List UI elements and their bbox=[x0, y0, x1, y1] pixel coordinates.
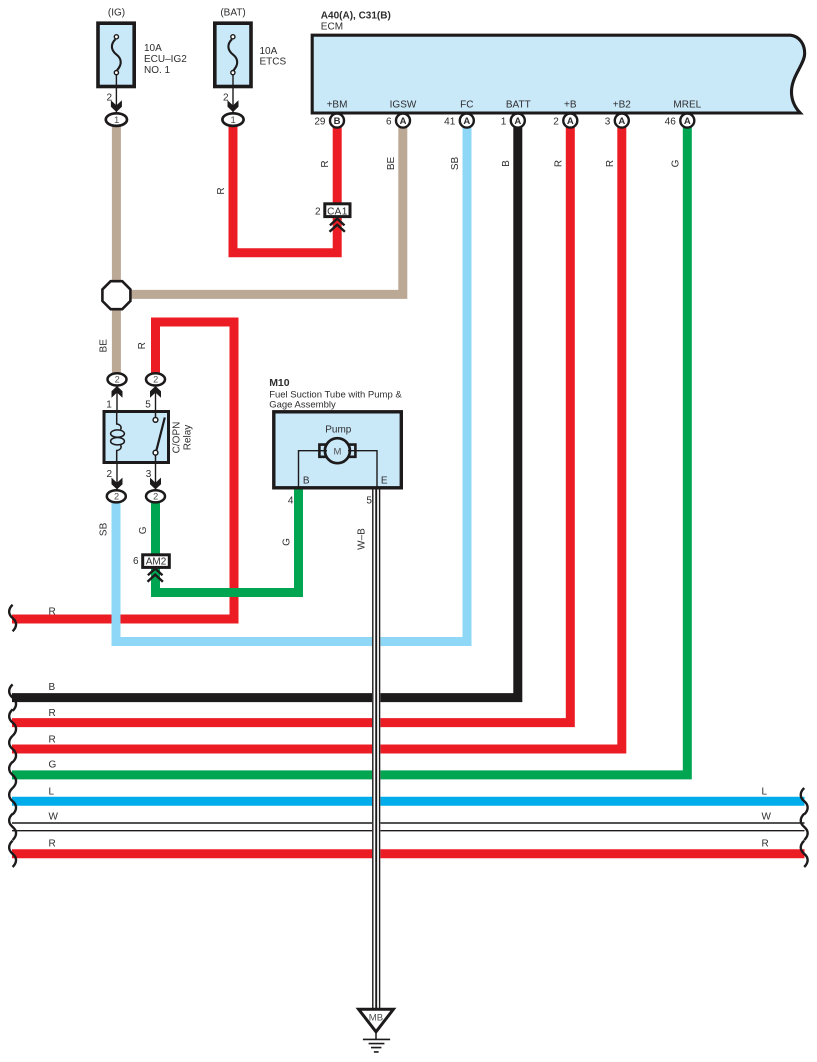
svg-text:M: M bbox=[333, 446, 341, 457]
wire BE octagon to ECM IGSW pin bbox=[116, 127, 402, 295]
relay switch bbox=[155, 412, 157, 463]
ECM pin 6(A) IGSW circle bbox=[396, 114, 410, 128]
svg-text:B: B bbox=[49, 682, 56, 693]
svg-text:A: A bbox=[463, 116, 470, 127]
svg-text:W: W bbox=[49, 811, 59, 822]
pump assembly M10 box bbox=[274, 412, 402, 488]
svg-text:G: G bbox=[670, 159, 681, 167]
wire R ECM +B pin to left edge bbox=[12, 127, 570, 723]
svg-text:2: 2 bbox=[115, 375, 120, 385]
svg-text:A40(A), C31(B): A40(A), C31(B) bbox=[321, 10, 391, 21]
svg-text:2: 2 bbox=[153, 375, 158, 385]
ground MB triangle bbox=[359, 1009, 394, 1032]
svg-text:2: 2 bbox=[106, 469, 112, 480]
relay pin 5 line bbox=[155, 387, 157, 414]
wire G relay pin 3 to AM2 bbox=[151, 496, 160, 554]
svg-text:L: L bbox=[762, 786, 768, 797]
relay coil bbox=[117, 412, 121, 463]
svg-text:CA1: CA1 bbox=[327, 206, 348, 217]
ECM pin 2(A) +B circle bbox=[563, 114, 577, 128]
break squiggle W wire right bbox=[801, 814, 808, 840]
relay pin 5 connector oval 2 bbox=[146, 373, 165, 385]
wire R ECM +BM pin down to CA1 bbox=[333, 127, 342, 204]
pump motor right brush bbox=[349, 445, 356, 457]
svg-text:L: L bbox=[49, 786, 55, 797]
svg-text:4: 4 bbox=[288, 495, 294, 506]
fuse IG connector oval 1 bbox=[106, 113, 127, 126]
relay pin 3 arrow (down) bbox=[150, 478, 161, 490]
svg-text:R: R bbox=[49, 607, 56, 618]
ECM pin 3(A) +B2 circle bbox=[615, 114, 629, 128]
relay C/OPN box bbox=[104, 412, 169, 463]
wire BE fuse IG down to relay pin 1 bbox=[112, 126, 121, 379]
svg-text:A: A bbox=[514, 116, 521, 127]
svg-text:A: A bbox=[567, 116, 574, 127]
svg-text:A: A bbox=[400, 116, 407, 127]
svg-text:MREL: MREL bbox=[673, 99, 701, 110]
svg-text:2: 2 bbox=[223, 93, 229, 104]
wire G ECM MREL pin to left edge bbox=[12, 127, 687, 775]
fuse BAT pin line bbox=[232, 75, 234, 113]
svg-text:(BAT): (BAT) bbox=[220, 8, 245, 19]
relay pin 3 line bbox=[155, 462, 157, 489]
break squiggle B wire left bbox=[9, 684, 16, 710]
svg-text:AM2: AM2 bbox=[146, 556, 167, 567]
svg-text:MB: MB bbox=[369, 1012, 383, 1023]
svg-text:R: R bbox=[216, 187, 227, 194]
pump motor M circle bbox=[325, 438, 350, 463]
svg-text:ETCS: ETCS bbox=[260, 57, 287, 68]
svg-text:A: A bbox=[618, 116, 625, 127]
break squiggle L wire left bbox=[9, 788, 16, 814]
svg-text:2: 2 bbox=[315, 206, 321, 217]
fuse BAT element S-curve bbox=[228, 39, 237, 70]
svg-text:3: 3 bbox=[146, 469, 152, 480]
pump motor left brush bbox=[319, 445, 326, 457]
svg-text:1: 1 bbox=[106, 400, 112, 411]
fuse BAT connector oval 1 bbox=[222, 113, 243, 126]
wire W-B pump pin E to ground MB (white wire with black stripe) bbox=[372, 489, 380, 1008]
fuse IG element S-curve bbox=[112, 39, 121, 70]
svg-text:2: 2 bbox=[114, 492, 119, 502]
break squiggle L wire right bbox=[801, 788, 808, 814]
wire R relay pin 5 loop to left edge bbox=[12, 322, 234, 619]
break squiggle G wire left bbox=[9, 762, 16, 788]
svg-text:Pump: Pump bbox=[325, 424, 352, 435]
wire L full width bbox=[12, 797, 805, 806]
svg-text:E: E bbox=[381, 476, 388, 487]
wire R ECM +B2 pin to left edge bbox=[12, 127, 622, 750]
svg-text:R: R bbox=[49, 839, 56, 850]
svg-text:SB: SB bbox=[450, 157, 461, 171]
relay pin 1 line bbox=[116, 387, 118, 414]
relay name C/OPN Relay (rotated) bbox=[171, 422, 193, 454]
svg-text:BE: BE bbox=[98, 339, 109, 353]
svg-text:W–B: W–B bbox=[356, 528, 367, 550]
svg-text:IGSW: IGSW bbox=[390, 99, 417, 110]
svg-text:ECM: ECM bbox=[321, 22, 343, 33]
svg-text:R: R bbox=[49, 734, 56, 745]
svg-text:M10: M10 bbox=[269, 377, 290, 389]
wire R CA1 chevron to BAT fuse bbox=[233, 126, 337, 253]
wire W full width (white wire, two outlines) bbox=[12, 823, 805, 831]
connector AM2 chevron bbox=[148, 569, 163, 582]
svg-text:A: A bbox=[684, 116, 691, 127]
ground stem bbox=[375, 1032, 377, 1040]
svg-text:W: W bbox=[762, 811, 772, 822]
fuse BAT pin 2 arrow (male, down) bbox=[228, 100, 239, 112]
svg-text:ECU–IG2: ECU–IG2 bbox=[144, 54, 187, 65]
wire R bottom full width bbox=[12, 849, 805, 858]
svg-text:29: 29 bbox=[314, 116, 326, 127]
relay pin 5 arrow (up) bbox=[150, 386, 161, 398]
relay pin 1 connector oval 2 bbox=[108, 373, 127, 385]
ground hatch lines bbox=[363, 1039, 390, 1052]
break squiggle R wire +B2 left bbox=[9, 736, 16, 762]
break squiggle R relay loop wire left bbox=[9, 605, 16, 631]
pump internal wire to pin E bbox=[348, 451, 377, 487]
svg-text:+BM: +BM bbox=[327, 99, 348, 110]
svg-text:R: R bbox=[553, 160, 564, 167]
ECM pin 1(A) BATT circle bbox=[511, 114, 525, 128]
relay pin 2 arrow (down) bbox=[112, 478, 123, 490]
svg-text:R: R bbox=[49, 708, 56, 719]
node octagon junction on BE wire bbox=[102, 281, 130, 309]
svg-text:R: R bbox=[605, 160, 616, 167]
svg-text:NO. 1: NO. 1 bbox=[144, 65, 171, 76]
wire SB relay pin 2 to ECM FC pin bbox=[116, 127, 467, 642]
svg-text:R: R bbox=[762, 839, 769, 850]
fuse IG pin 2 arrow (male, down) bbox=[111, 100, 122, 112]
ECM pin 41(A) FC circle bbox=[460, 114, 474, 128]
svg-text:2: 2 bbox=[153, 492, 158, 502]
svg-text:B: B bbox=[334, 116, 341, 127]
connector CA1 box bbox=[325, 204, 350, 217]
svg-text:Gage Assembly: Gage Assembly bbox=[269, 399, 336, 410]
break squiggle R wire bottom left bbox=[9, 841, 16, 867]
svg-text:1: 1 bbox=[501, 116, 507, 127]
svg-text:B: B bbox=[303, 476, 310, 487]
connector CA1 chevron bbox=[330, 219, 345, 232]
svg-text:6: 6 bbox=[386, 116, 392, 127]
svg-text:2: 2 bbox=[553, 116, 559, 127]
wire G AM2 chevron to pump pin B bbox=[156, 489, 299, 593]
break squiggle R wire bottom right bbox=[801, 841, 808, 867]
svg-text:46: 46 bbox=[665, 116, 677, 127]
svg-text:+B: +B bbox=[564, 99, 577, 110]
svg-text:SB: SB bbox=[99, 522, 110, 536]
svg-text:10A: 10A bbox=[144, 43, 162, 54]
ECM box A40(A) C31(B) with torn right edge bbox=[312, 35, 804, 113]
connector AM2 box bbox=[143, 555, 170, 568]
relay pin 1 arrow (up) bbox=[112, 386, 123, 398]
svg-text:6: 6 bbox=[133, 556, 139, 567]
break squiggle W wire left bbox=[9, 814, 16, 840]
svg-text:Relay: Relay bbox=[182, 425, 193, 451]
svg-text:1: 1 bbox=[231, 115, 236, 126]
svg-text:G: G bbox=[281, 538, 292, 546]
relay pin 2 connector oval 2 bbox=[107, 490, 126, 502]
svg-text:BATT: BATT bbox=[506, 99, 531, 110]
svg-text:R: R bbox=[137, 342, 148, 349]
svg-text:3: 3 bbox=[605, 116, 611, 127]
ECM pin 29(B) +BM circle bbox=[330, 114, 344, 128]
fuse IG pin line bbox=[115, 75, 117, 113]
fuse ECU-IG2 (IG) box bbox=[98, 23, 134, 86]
svg-text:B: B bbox=[501, 160, 512, 167]
svg-text:1: 1 bbox=[114, 115, 119, 126]
wire B ECM BATT pin to left edge bbox=[12, 127, 518, 698]
pump internal wire to pin B bbox=[299, 451, 328, 487]
break squiggle R wire +B left bbox=[9, 709, 16, 735]
svg-text:10A: 10A bbox=[260, 46, 278, 57]
svg-text:C/OPN: C/OPN bbox=[171, 422, 182, 454]
relay pin 2 line bbox=[116, 462, 118, 489]
ECM pin 46(A) MREL circle bbox=[680, 114, 694, 128]
svg-text:G: G bbox=[138, 526, 149, 534]
svg-text:2: 2 bbox=[106, 93, 112, 104]
svg-text:FC: FC bbox=[460, 99, 473, 110]
svg-text:+B2: +B2 bbox=[613, 99, 632, 110]
svg-text:R: R bbox=[320, 160, 331, 167]
svg-text:5: 5 bbox=[145, 400, 151, 411]
svg-text:BE: BE bbox=[386, 157, 397, 171]
relay pin 3 connector oval 2 bbox=[146, 490, 165, 502]
svg-text:41: 41 bbox=[444, 116, 456, 127]
svg-text:G: G bbox=[49, 760, 57, 771]
svg-text:5: 5 bbox=[366, 495, 372, 506]
svg-text:(IG): (IG) bbox=[108, 8, 125, 19]
fuse ETCS (BAT) box bbox=[215, 23, 251, 86]
